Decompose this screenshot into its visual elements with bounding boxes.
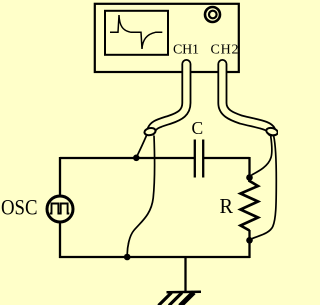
oscillator source OSC (circle) xyxy=(47,196,73,222)
CH1 probe signal lead to node A xyxy=(137,136,147,157)
wire: bottom wire xyxy=(59,256,250,258)
oscilloscope screen xyxy=(105,11,168,55)
node D junction dot (resistor bottom, CH2 ground) xyxy=(246,237,253,244)
CH2 probe cable (outlined tube) xyxy=(222,64,271,132)
wire: left wire (top corner down to OSC source) xyxy=(59,157,61,196)
power button (double circle) xyxy=(205,7,220,22)
CH2 probe ground lead to resistor bottom node xyxy=(252,136,276,239)
node A junction dot (top wire, CH1 signal) xyxy=(133,155,140,162)
wire: left wire (OSC source down to bottom-left corner) xyxy=(59,222,61,258)
square-wave glyph inside source xyxy=(50,204,69,214)
svg-text:OSC: OSC xyxy=(1,195,38,220)
svg-text:CH1: CH1 xyxy=(173,43,199,58)
wire: right wire lower segment (resistor bottom to corner) xyxy=(248,230,250,258)
waveform trace (differentiated square wave) xyxy=(110,15,162,49)
ground symbol xyxy=(159,292,202,305)
CH1 probe cable (outlined tube) xyxy=(151,64,186,131)
CH2 probe signal lead to resistor top node xyxy=(252,136,272,175)
svg-text:C: C xyxy=(192,118,204,138)
svg-text:CH2: CH2 xyxy=(211,43,239,58)
CH2 probe tip connector xyxy=(266,127,279,137)
wire: ground stem from bottom wire xyxy=(184,257,186,292)
node B junction dot (bottom wire, CH1 ground) xyxy=(124,254,131,261)
wire: top wire from left corner to capacitor left plate xyxy=(60,157,194,159)
CH1 probe ground lead to bottom wire xyxy=(127,136,154,255)
svg-text:R: R xyxy=(220,194,234,218)
CH1 probe tip connector xyxy=(144,127,156,136)
wire: right wire upper segment (corner to resistor top) xyxy=(248,157,250,182)
resistor R zigzag xyxy=(241,179,259,231)
wire: top wire from capacitor right plate to top-right corner xyxy=(204,157,250,159)
node C junction dot (resistor top, CH2 signal) xyxy=(246,174,253,181)
oscilloscope U1 enclosure xyxy=(95,4,239,72)
capacitor C plates xyxy=(195,140,203,178)
